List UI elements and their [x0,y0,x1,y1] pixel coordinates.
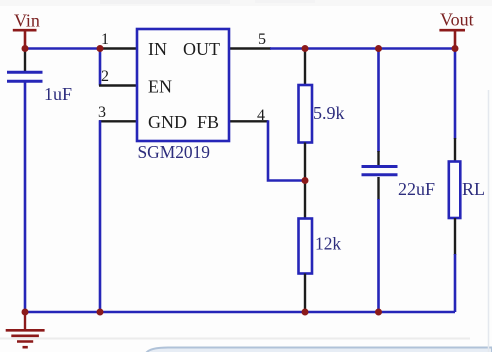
svg-text:SGM2019: SGM2019 [138,142,210,162]
photo artifact: faint top-edge smudge [0,0,492,6]
svg-text:RL: RL [462,179,485,199]
node E: Vout junction [452,45,459,52]
label RL [462,179,485,199]
svg-text:3: 3 [98,104,106,121]
wire: FB vertical drop [268,120,305,180]
svg-text:EN: EN [148,77,172,97]
node A: Vin junction [22,45,29,52]
svg-text:GND: GND [148,112,187,132]
svg-text:Vout: Vout [440,10,474,30]
node J: ground rail 22uF junction [375,309,382,316]
wire: pin 5 stub (black) [228,47,271,49]
wire: bottom ground rail [25,311,455,314]
pin number 2 [101,68,109,85]
wire: pin 4 stub (black) [228,120,268,122]
resistor R2 12k [299,181,313,313]
svg-text:OUT: OUT [183,39,220,59]
svg-text:FB: FB [197,112,219,132]
pin number 4 [257,107,265,124]
svg-text:1uF: 1uF [44,84,72,104]
label 1uF [44,84,72,104]
svg-text:5.9k: 5.9k [313,103,345,123]
wire: pin 1 stub (black) [99,47,138,49]
ground [6,312,45,347]
photo artifact: faint bottom shadow line [0,338,470,340]
svg-text:5: 5 [258,31,266,48]
svg-text:2: 2 [101,68,109,85]
wire: pin 3 stub (black) [99,120,138,122]
pin number 1 [101,31,109,48]
wire: node to EN pin vertical [99,49,102,86]
svg-text:Vin: Vin [14,11,40,31]
photo artifact: right edge line [488,90,490,352]
pin number 5 [258,31,266,48]
svg-text:IN: IN [148,39,167,59]
svg-text:12k: 12k [315,234,341,254]
node H: ground rail GND junction [97,309,104,316]
pin number 3 [98,104,106,121]
node G: ground rail left junction [22,309,29,316]
label 12k [315,234,341,254]
power port Vout [439,10,473,48]
label 5.9k [313,103,345,123]
wire: pin 2 stub (black) [99,84,138,86]
power port Vin [13,11,40,48]
label 22uF [398,179,435,199]
svg-text:4: 4 [257,107,265,124]
node B: pin 1 junction [97,45,104,52]
node C: output / 5.9k junction [302,45,309,52]
capacitor C1 1uF [7,49,43,313]
label SGM2019 [138,142,210,162]
wire: Vin rail to pin 1 node [25,47,100,50]
wire: OUT rail to Vout [270,47,455,50]
capacitor C2 22uF [362,49,398,313]
resistor R1 5.9k [299,49,313,182]
node F: feedback junction [302,177,309,184]
node D: output / 22uF junction [375,45,382,52]
IC U1 SGM2019 [137,29,229,141]
wire: GND pin down to bottom rail [99,120,102,312]
svg-text:22uF: 22uF [398,179,435,199]
node I: ground rail 12k junction [302,309,309,316]
resistor RL [449,49,461,313]
photo artifact: bottom panel rounded edge [146,348,492,352]
svg-text:1: 1 [101,31,109,48]
